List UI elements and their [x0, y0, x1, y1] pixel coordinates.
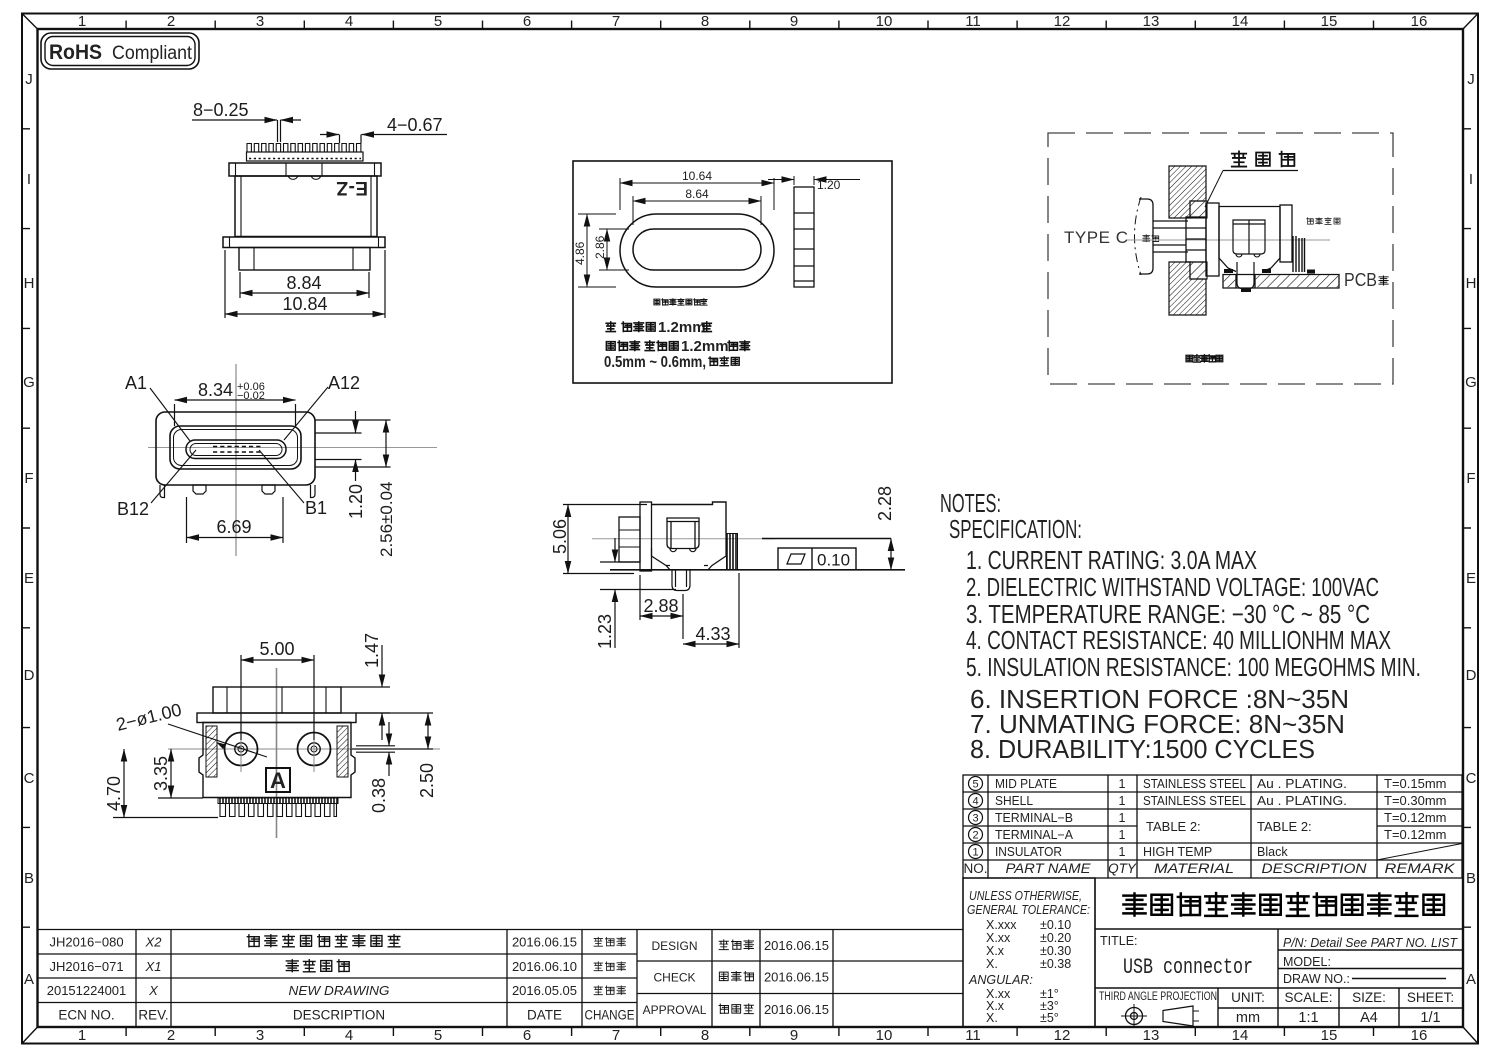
svg-text:2016.05.05: 2016.05.05 [512, 983, 577, 998]
svg-text:ECN NO.: ECN NO. [58, 1008, 114, 1023]
panel wall upper [1169, 166, 1206, 218]
svg-text:GENERAL TOLERANCE:: GENERAL TOLERANCE: [967, 903, 1090, 917]
svg-text:X.: X. [986, 1011, 998, 1025]
centerline vertical [235, 364, 237, 556]
dim 2.28 [890, 539, 892, 570]
pcb board hatched [1223, 275, 1339, 289]
svg-text:1.2mm: 1.2mm [658, 319, 706, 336]
svg-text:THIRD ANGLE PROJECTION: THIRD ANGLE PROJECTION [1099, 991, 1217, 1003]
svg-text:2.86: 2.86 [593, 235, 607, 259]
contacts dashes [213, 447, 262, 453]
svg-text:±0.20: ±0.20 [1040, 931, 1071, 945]
solder dots row [249, 158, 361, 160]
svg-text:4: 4 [972, 796, 978, 808]
svg-text:X.: X. [986, 957, 998, 971]
svg-text:1: 1 [1119, 828, 1126, 842]
svg-text:USB connector: USB connector [1123, 955, 1253, 980]
svg-text:1.20: 1.20 [817, 178, 841, 192]
svg-text:J: J [25, 71, 33, 88]
plug barrel [1153, 221, 1188, 252]
svg-text:2. DIELECTRIC WITHSTAND VOLTAG: 2. DIELECTRIC WITHSTAND VOLTAGE: 100VAC [966, 572, 1379, 602]
svg-text:T=0.12mm: T=0.12mm [1384, 810, 1447, 825]
svg-text:10.84: 10.84 [282, 294, 327, 314]
svg-text:DESCRIPTION: DESCRIPTION [1262, 861, 1367, 876]
svg-text:1: 1 [1119, 811, 1126, 825]
svg-text:16: 16 [1411, 13, 1428, 30]
dim 10.84 [225, 250, 385, 318]
svg-text:F: F [24, 470, 33, 487]
dim 2.88 [640, 575, 683, 639]
body taper sides [652, 534, 727, 570]
seal lower [1190, 262, 1207, 279]
svg-text:P/N: Detail See PART NO. LIST: P/N: Detail See PART NO. LIST [1283, 936, 1458, 950]
dim 6.69 [187, 497, 284, 543]
svg-text:3: 3 [256, 13, 264, 30]
svg-text:X2: X2 [145, 935, 163, 950]
svg-text:B1: B1 [305, 498, 327, 518]
svg-text:2: 2 [972, 830, 978, 842]
svg-text:2016.06.15: 2016.06.15 [764, 938, 829, 953]
svg-text:4.70: 4.70 [104, 776, 124, 811]
svg-text:8−0.25: 8−0.25 [193, 100, 249, 120]
svg-text:F: F [1466, 470, 1475, 487]
svg-text:MODEL:: MODEL: [1283, 955, 1331, 969]
svg-text:UNIT:: UNIT: [1231, 990, 1265, 1005]
inner latch [1233, 220, 1265, 254]
svg-text:D: D [1466, 667, 1477, 684]
svg-text:8. DURABILITY:1500 CYCLES: 8. DURABILITY:1500 CYCLES [970, 734, 1315, 764]
seal flange plate [1206, 203, 1219, 276]
svg-text:G: G [1465, 374, 1477, 391]
dim 0.38 [356, 722, 395, 776]
svg-text:2016.06.15: 2016.06.15 [512, 935, 577, 950]
svg-text:X.x: X.x [986, 944, 1005, 958]
latch spring [667, 518, 699, 549]
approval block [643, 939, 707, 1017]
svg-text:16: 16 [1411, 1027, 1428, 1044]
svg-text:12: 12 [1054, 1027, 1071, 1044]
svg-text:A: A [24, 971, 34, 988]
centerline vertical [276, 668, 278, 838]
svg-text:INSULATOR: INSULATOR [995, 845, 1062, 859]
bottom teeth [220, 804, 337, 817]
dim 4.70 [113, 749, 218, 818]
svg-text:2016.06.15: 2016.06.15 [764, 1002, 829, 1017]
svg-text:2016.06.15: 2016.06.15 [764, 970, 829, 985]
reference top line [762, 538, 891, 540]
svg-text:4.86: 4.86 [573, 241, 587, 265]
rear block [619, 517, 640, 562]
svg-text:MID PLATE: MID PLATE [995, 777, 1057, 791]
shell inner [174, 430, 298, 466]
svg-text:1. CURRENT RATING: 3.0A MAX: 1. CURRENT RATING: 3.0A MAX [966, 545, 1257, 575]
panel wall lower [1169, 262, 1206, 315]
plug overmold [1139, 199, 1153, 274]
svg-text:2.56±0.04: 2.56±0.04 [377, 481, 396, 557]
svg-text:SHELL: SHELL [995, 794, 1033, 808]
svg-text:5. INSULATION RESISTANCE: 100: 5. INSULATION RESISTANCE: 100 MEGOHMS MI… [966, 652, 1421, 682]
centerline horizontal [168, 748, 440, 750]
right foot [262, 485, 275, 494]
detail box [573, 161, 892, 383]
centerline [592, 538, 775, 540]
svg-text:2.28: 2.28 [875, 486, 895, 521]
svg-text:B: B [24, 870, 34, 887]
right leg [311, 485, 316, 498]
svg-text:4: 4 [345, 13, 353, 30]
cable boundary arc (dash-dot) [1135, 197, 1142, 275]
seal upper [1190, 201, 1207, 218]
centerline [1127, 239, 1330, 241]
pin row [1293, 236, 1305, 272]
svg-text:4: 4 [345, 1027, 353, 1044]
svg-text:SHEET:: SHEET: [1407, 990, 1454, 1005]
inner cutout stadium [633, 229, 761, 270]
svg-text:2: 2 [167, 1027, 175, 1044]
svg-text:5.06: 5.06 [550, 519, 570, 554]
pcb seating line [610, 569, 905, 571]
svg-text:0.10: 0.10 [817, 551, 850, 570]
right hatch bar [337, 726, 348, 777]
svg-text:10: 10 [876, 13, 893, 30]
flange center notches [288, 176, 321, 179]
svg-text:2: 2 [167, 13, 175, 30]
waterproof socket label (CJK) [1307, 218, 1340, 225]
svg-text:T=0.12mm: T=0.12mm [1384, 827, 1447, 842]
svg-text:DESCRIPTION: DESCRIPTION [293, 1008, 385, 1023]
svg-text:11: 11 [965, 13, 981, 30]
housing outline [156, 412, 315, 485]
parts header row [963, 861, 1455, 876]
svg-text:SPECIFICATION:: SPECIFICATION: [949, 514, 1082, 544]
svg-text:1.47: 1.47 [362, 633, 382, 668]
svg-text:X.xxx: X.xxx [986, 918, 1017, 932]
svg-text:8.64: 8.64 [685, 187, 709, 201]
dim 2.50 [352, 713, 433, 749]
svg-text:10.64: 10.64 [682, 169, 712, 183]
solder pads on pcb [1224, 269, 1315, 274]
rear plate [1280, 205, 1292, 262]
svg-text:7: 7 [612, 13, 620, 30]
svg-text:1: 1 [1119, 845, 1126, 859]
dashed boundary box [1048, 133, 1393, 384]
svg-text:13: 13 [1143, 1027, 1160, 1044]
svg-text:PART NAME: PART NAME [1006, 861, 1092, 876]
svg-text:1: 1 [1119, 777, 1126, 791]
dim 8-0.25 [192, 120, 301, 142]
svg-text:14: 14 [1232, 1027, 1249, 1044]
svg-text:4−0.67: 4−0.67 [387, 115, 443, 135]
svg-text:1: 1 [1119, 794, 1126, 808]
pin carrier plate [247, 152, 364, 161]
svg-text:E-Z: E-Z [336, 177, 368, 198]
RoHS Compliant badge [41, 33, 199, 69]
dim 1.23 [600, 538, 676, 648]
slot [186, 440, 286, 459]
ruler ticks top/bottom [126, 21, 1373, 1037]
dim 2.86 [599, 229, 629, 270]
company name (CJK) [1123, 893, 1444, 916]
svg-text:1:1: 1:1 [1298, 1010, 1318, 1026]
svg-text:C: C [24, 770, 35, 787]
svg-text:9: 9 [790, 13, 798, 30]
dim 4.86 [578, 214, 616, 287]
svg-text:H: H [24, 275, 35, 292]
dim 10.64 [620, 178, 774, 210]
unit scale size sheet [1231, 990, 1454, 1026]
svg-text:G: G [23, 374, 35, 391]
svg-text:ANGULAR:: ANGULAR: [968, 973, 1033, 987]
svg-text:3: 3 [256, 1027, 264, 1044]
svg-text:±0.10: ±0.10 [1040, 918, 1071, 932]
flange [197, 713, 356, 723]
svg-text:DATE: DATE [527, 1008, 562, 1023]
svg-text:X1: X1 [145, 959, 162, 974]
svg-text:14: 14 [1232, 13, 1249, 30]
svg-text:±5°: ±5° [1040, 1011, 1059, 1025]
svg-text:NEW DRAWING: NEW DRAWING [289, 984, 390, 998]
assembly caption (CJK) [1186, 355, 1223, 362]
svg-text:20151224001: 20151224001 [47, 983, 127, 998]
svg-text:X: X [148, 983, 159, 998]
svg-text:A4: A4 [1360, 1010, 1378, 1026]
svg-text:C: C [1466, 770, 1477, 787]
svg-text:CHECK: CHECK [653, 971, 695, 985]
svg-text:E: E [24, 570, 34, 587]
svg-text:TABLE 2:: TABLE 2: [1257, 819, 1312, 834]
svg-text:SIZE:: SIZE: [1352, 990, 1386, 1005]
receptacle body [1219, 207, 1280, 272]
dim 2.56±0.04 [385, 420, 387, 467]
svg-text:X.xx: X.xx [986, 931, 1011, 945]
ruler letters left [23, 71, 35, 988]
svg-text:Black: Black [1257, 845, 1288, 859]
revision rows [47, 935, 635, 1023]
svg-text:JH2016−071: JH2016−071 [49, 959, 123, 974]
svg-text:11: 11 [965, 1027, 981, 1044]
leg end pad [1241, 289, 1251, 293]
dim 1.20 strip [768, 176, 860, 185]
svg-text:TABLE 2:: TABLE 2: [1146, 819, 1201, 834]
latch feet bumps [1236, 254, 1260, 257]
hole right [298, 726, 331, 772]
svg-text:T=0.15mm: T=0.15mm [1384, 776, 1447, 791]
svg-text:8.84: 8.84 [286, 273, 321, 293]
svg-text:5: 5 [434, 1027, 442, 1044]
svg-text:APPROVAL: APPROVAL [643, 1003, 707, 1017]
svg-text:QTY: QTY [1108, 861, 1137, 876]
top flange [229, 163, 381, 176]
svg-text:4. CONTACT RESISTANCE: 40 MILL: 4. CONTACT RESISTANCE: 40 MILLIONHM MAX [966, 625, 1391, 655]
receptacle leg through pcb [1237, 262, 1254, 289]
through-board leg [672, 570, 690, 591]
dim 1.20 right [316, 411, 391, 481]
ruler numbers bottom [78, 1027, 1428, 1044]
svg-text:I: I [27, 171, 31, 188]
dim 5.06 [563, 505, 647, 574]
svg-text:−0.02: −0.02 [237, 390, 265, 402]
svg-text:2016.06.10: 2016.06.10 [512, 959, 577, 974]
svg-text:J: J [1467, 71, 1475, 88]
svg-text:3.35: 3.35 [151, 756, 171, 791]
svg-text:1.2mm: 1.2mm [681, 338, 729, 355]
dim 8.34 [175, 400, 296, 426]
svg-text:RoHS: RoHS [49, 41, 102, 64]
svg-text:HIGH TEMP: HIGH TEMP [1143, 845, 1212, 859]
svg-text:±0.30: ±0.30 [1040, 944, 1071, 958]
svg-text:T=0.30mm: T=0.30mm [1384, 793, 1447, 808]
parts rows text [995, 776, 1447, 859]
svg-text:6: 6 [523, 13, 531, 30]
svg-text:REMARK: REMARK [1385, 861, 1456, 876]
svg-text:STAINLESS STEEL: STAINLESS STEEL [1143, 794, 1246, 808]
svg-text:A: A [270, 768, 286, 793]
svg-text:1.20: 1.20 [346, 484, 366, 519]
svg-text:12: 12 [1054, 13, 1071, 30]
svg-text:E: E [1466, 570, 1476, 587]
circled item numbers [969, 777, 983, 859]
svg-text:8: 8 [701, 13, 709, 30]
dim 1.47 [341, 645, 390, 740]
smt pad stack [727, 534, 738, 570]
svg-text:MATERIAL: MATERIAL [1154, 861, 1234, 876]
ruler numbers top [78, 13, 1428, 30]
svg-text:PCB: PCB [1344, 270, 1377, 290]
svg-text:A: A [1466, 971, 1476, 988]
left hatch bar [206, 726, 217, 777]
dim 3.35 [158, 749, 203, 798]
svg-text:13: 13 [1143, 13, 1160, 30]
latch feet [670, 549, 696, 552]
back plate [640, 502, 652, 571]
svg-text:10: 10 [876, 1027, 893, 1044]
svg-text:3: 3 [972, 813, 978, 825]
svg-text:0.38: 0.38 [369, 778, 389, 813]
svg-text:REV.: REV. [138, 1008, 168, 1023]
svg-text:JH2016−080: JH2016−080 [49, 935, 123, 950]
revision descriptions (CJK) [247, 935, 400, 947]
dim 5.00 [241, 655, 314, 740]
svg-text:CHANGE: CHANGE [585, 1008, 635, 1023]
svg-text:B12: B12 [117, 499, 149, 519]
main body [199, 723, 355, 798]
svg-text:0.5mm ~ 0.6mm,: 0.5mm ~ 0.6mm, [604, 354, 706, 371]
outer gasket stadium [620, 214, 774, 287]
note line 2 (CJK) [606, 341, 678, 351]
bottom flange [223, 237, 385, 248]
svg-text:1/1: 1/1 [1420, 1010, 1440, 1026]
svg-text:B: B [1466, 870, 1476, 887]
dim 4-0.67 [320, 135, 447, 144]
svg-text:15: 15 [1321, 13, 1338, 30]
svg-text:D: D [24, 667, 35, 684]
svg-text:A1: A1 [125, 373, 147, 393]
svg-text:5: 5 [972, 779, 978, 791]
svg-text:9: 9 [790, 1027, 798, 1044]
svg-text:±0.38: ±0.38 [1040, 957, 1071, 971]
svg-text:TERMINAL−A: TERMINAL−A [995, 828, 1074, 842]
change names (CJK) [594, 937, 626, 994]
dim 8.64 [633, 196, 761, 225]
svg-text:5: 5 [434, 13, 442, 30]
svg-text:Au . PLATING.: Au . PLATING. [1257, 777, 1347, 791]
svg-text:Compliant: Compliant [112, 43, 193, 64]
svg-text:TITLE:: TITLE: [1100, 934, 1138, 948]
svg-text:mm: mm [1236, 1010, 1260, 1026]
svg-text:1: 1 [78, 1027, 86, 1044]
bottom pad strip [218, 798, 338, 804]
svg-text:2.50: 2.50 [417, 763, 437, 798]
bottom housing box [239, 248, 370, 271]
dim 4.33 [683, 573, 739, 648]
svg-text:5.00: 5.00 [259, 639, 294, 659]
svg-text:4.33: 4.33 [695, 624, 730, 644]
svg-text:1.23: 1.23 [595, 614, 615, 649]
svg-text:8: 8 [701, 1027, 709, 1044]
top plate [213, 687, 341, 713]
section mark A [266, 768, 290, 792]
caption panel-hole size (CJK) [654, 299, 707, 306]
ruler letters right [1465, 71, 1477, 988]
gasket side strip [794, 187, 814, 287]
dim 8.84 [240, 272, 369, 298]
svg-text:8.34: 8.34 [198, 380, 233, 400]
svg-text:TERMINAL−B: TERMINAL−B [995, 811, 1073, 825]
ruler side ticks [22, 129, 1471, 927]
svg-text:H: H [1466, 275, 1477, 292]
svg-text:6: 6 [523, 1027, 531, 1044]
svg-text:1: 1 [78, 13, 86, 30]
receptacle nose collar [1186, 217, 1206, 262]
svg-text:DRAW NO.:: DRAW NO.: [1283, 972, 1350, 986]
svg-text:STAINLESS STEEL: STAINLESS STEEL [1143, 777, 1246, 791]
left foot [193, 485, 206, 494]
plug label (CJK) [1143, 235, 1159, 242]
svg-text:7: 7 [612, 1027, 620, 1044]
svg-text:15: 15 [1321, 1027, 1338, 1044]
svg-text:Au . PLATING.: Au . PLATING. [1257, 794, 1347, 808]
svg-text:2.88: 2.88 [643, 596, 678, 616]
svg-text:6.69: 6.69 [216, 517, 251, 537]
main body shell [235, 176, 377, 237]
svg-text:A12: A12 [328, 373, 360, 393]
centerline horizontal [148, 447, 437, 449]
note line 1 (CJK) [606, 322, 655, 332]
seal ring label (CJK) [1232, 151, 1295, 166]
svg-text:1: 1 [972, 847, 978, 859]
svg-text:TYPE C: TYPE C [1064, 228, 1128, 247]
shell outer [170, 426, 301, 469]
approver names (CJK) [719, 940, 753, 1014]
tongue [190, 444, 282, 456]
body top outline [652, 502, 727, 534]
flatness callout box [778, 548, 856, 570]
left leg [160, 485, 165, 498]
comb teeth row [247, 144, 361, 153]
svg-text:UNLESS OTHERWISE,: UNLESS OTHERWISE, [969, 889, 1082, 903]
svg-text:I: I [1469, 171, 1473, 188]
hole left [225, 726, 258, 772]
svg-text:NO.: NO. [963, 861, 987, 876]
svg-text:SCALE:: SCALE: [1284, 990, 1332, 1005]
svg-text:DESIGN: DESIGN [651, 939, 697, 953]
